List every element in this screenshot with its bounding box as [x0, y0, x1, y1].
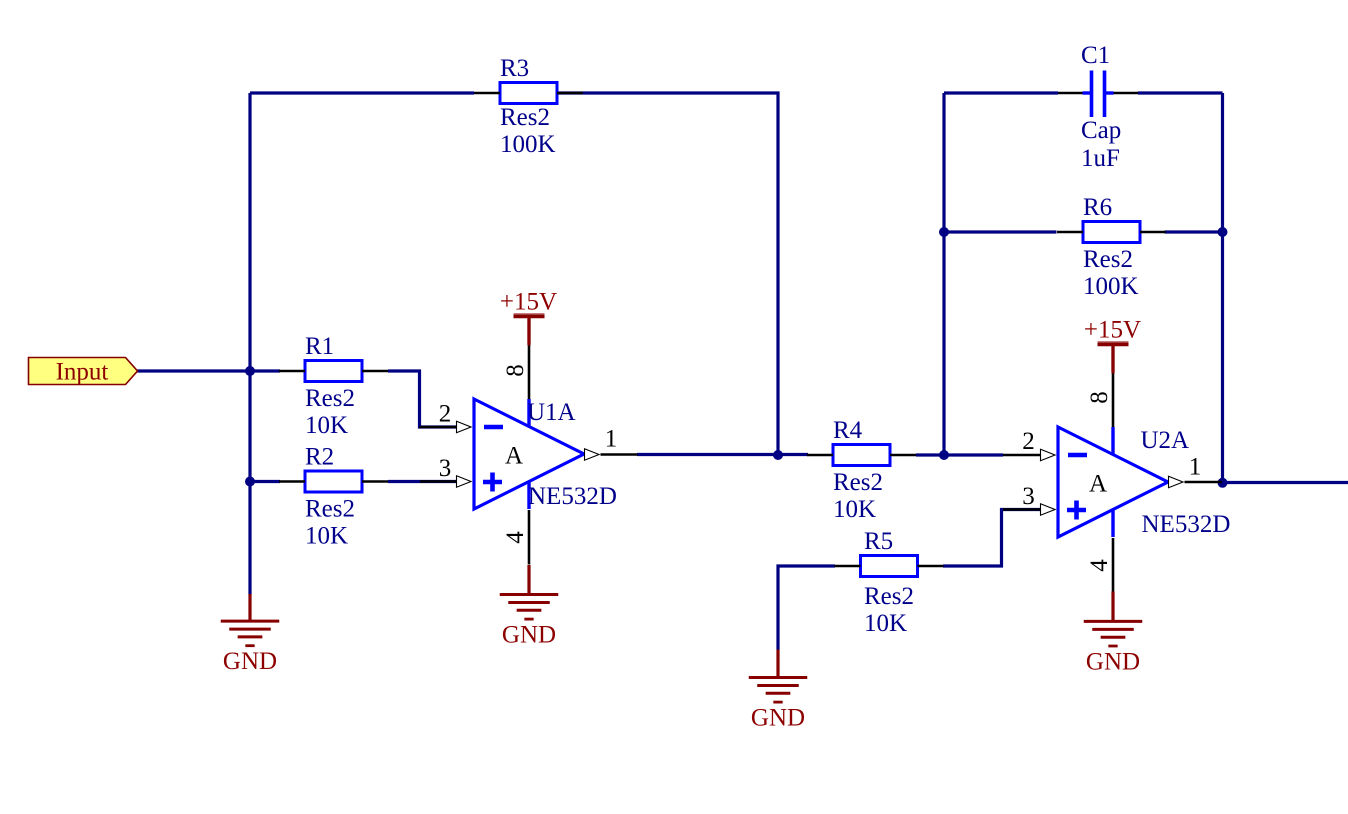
wire R6 left — [944, 230, 1057, 233]
svg-text:2: 2 — [1022, 428, 1035, 455]
svg-text:U1A: U1A — [527, 399, 576, 426]
ground GND R5 — [749, 678, 808, 732]
svg-text:1uF: 1uF — [1081, 145, 1120, 172]
svg-text:Input: Input — [56, 359, 109, 386]
U2A pin 8 — [1112, 373, 1115, 427]
wire R6 right — [1165, 230, 1223, 233]
svg-text:A: A — [505, 443, 523, 470]
ground stem R5 — [776, 650, 779, 679]
port Input — [29, 358, 138, 386]
U2A pin 3 — [1003, 504, 1055, 515]
wire R1 to U1A pin2 — [388, 371, 458, 427]
wire C1 loop right vertical — [1221, 93, 1224, 483]
ground stem left bus — [248, 594, 251, 622]
svg-text:2: 2 — [439, 401, 452, 428]
svg-text:GND: GND — [502, 622, 556, 649]
wire U1A output to R4 — [637, 453, 808, 456]
junction U2A out / feedback — [1218, 478, 1228, 488]
svg-text:100K: 100K — [1083, 273, 1139, 300]
ground GND U1A — [500, 595, 559, 649]
resistor R4 — [807, 417, 916, 523]
svg-text:1: 1 — [605, 426, 618, 453]
wire R4 to U2A pin2 — [916, 453, 1003, 456]
U1A pin 1 output — [585, 449, 638, 460]
U1A pin 8 number — [502, 364, 529, 377]
junction R2 tap — [245, 477, 255, 487]
junction input/R1 — [245, 366, 255, 376]
wire C1 loop top left — [944, 91, 1058, 94]
svg-text:1: 1 — [1189, 454, 1202, 481]
ground stem U1A pin4 — [527, 565, 530, 595]
svg-text:Res2: Res2 — [864, 583, 914, 610]
U2A pin 8 number — [1086, 391, 1113, 404]
U1A pin 4 number — [502, 531, 529, 544]
op-amp U1A NE532D — [474, 399, 617, 510]
svg-text:4: 4 — [502, 531, 529, 544]
svg-text:GND: GND — [1086, 648, 1140, 675]
U2A pin8 power stem — [1111, 346, 1114, 374]
wire left input bus vertical — [248, 93, 251, 595]
wire R2 to U1A pin3 — [388, 480, 458, 483]
wire R1 left — [250, 369, 280, 372]
svg-text:Res2: Res2 — [305, 496, 355, 523]
svg-text:+15V: +15V — [1084, 317, 1141, 344]
svg-text:Res2: Res2 — [305, 385, 355, 412]
wire C1 loop left vertical — [942, 93, 945, 455]
wire top feedback right segment — [558, 93, 779, 455]
resistor R1 — [279, 333, 388, 439]
wire top feedback left segment — [250, 91, 474, 94]
junction U1A out / feedback / R4 — [773, 450, 783, 460]
U2A pin 1 number — [1189, 454, 1202, 481]
resistor R6 — [1057, 194, 1166, 300]
wire C1 loop top right — [1138, 91, 1223, 94]
svg-text:10K: 10K — [864, 610, 907, 637]
ground GND U2A — [1084, 621, 1143, 675]
U2A pin 2 number — [1022, 428, 1035, 455]
ground GND left bus — [221, 621, 280, 675]
resistor R2 — [279, 444, 388, 550]
svg-text:10K: 10K — [305, 523, 348, 550]
wire input port to bus — [137, 369, 250, 372]
svg-text:8: 8 — [502, 364, 529, 377]
svg-text:Cap: Cap — [1081, 117, 1121, 144]
svg-text:R2: R2 — [305, 444, 334, 471]
wire R2 left — [250, 480, 280, 483]
svg-text:C1: C1 — [1081, 42, 1110, 69]
svg-text:+15V: +15V — [500, 289, 557, 316]
svg-text:R6: R6 — [1083, 194, 1112, 221]
svg-text:R4: R4 — [833, 417, 863, 444]
svg-text:4: 4 — [1086, 559, 1113, 572]
svg-text:NE532D: NE532D — [528, 483, 617, 510]
svg-text:10K: 10K — [305, 412, 348, 439]
svg-text:100K: 100K — [500, 131, 556, 158]
U2A pin 2 — [1003, 449, 1055, 460]
U1A pin 3 number — [439, 455, 452, 482]
svg-text:8: 8 — [1086, 391, 1113, 404]
U2A pin 1 output — [1169, 476, 1223, 487]
svg-text:10K: 10K — [833, 496, 876, 523]
junction R6 right — [1218, 227, 1228, 237]
U1A pin 2 number — [439, 401, 452, 428]
capacitor C1 — [1058, 42, 1138, 172]
svg-text:R1: R1 — [305, 333, 334, 360]
wire R5 to U2A pin3 — [943, 510, 1040, 567]
resistor R5 — [835, 528, 944, 637]
svg-text:U2A: U2A — [1141, 427, 1190, 454]
U1A pin 3 — [420, 476, 471, 487]
svg-text:R5: R5 — [864, 528, 893, 555]
wire U2A output — [1223, 481, 1348, 484]
U1A pin 8 — [528, 345, 531, 399]
op-amp U2A NE532D — [1058, 427, 1230, 538]
resistor R3 — [474, 55, 583, 158]
power +15V at U2A — [1084, 317, 1141, 372]
U1A pin 4 — [528, 510, 531, 565]
svg-text:A: A — [1089, 471, 1107, 498]
wire R5 gnd branch — [778, 566, 835, 650]
U1A pin 1 number — [605, 426, 618, 453]
svg-text:Res2: Res2 — [500, 104, 550, 131]
ground stem U2A pin4 — [1111, 592, 1114, 623]
svg-text:GND: GND — [751, 705, 805, 732]
U2A pin 4 — [1112, 538, 1115, 592]
svg-text:GND: GND — [223, 648, 277, 675]
svg-text:Res2: Res2 — [833, 469, 883, 496]
junction R4 / C1 loop — [939, 450, 949, 460]
U2A pin 4 number — [1086, 559, 1113, 572]
svg-text:NE532D: NE532D — [1142, 511, 1231, 538]
U2A pin 3 number — [1022, 483, 1035, 510]
power +15V at U1A — [500, 289, 557, 344]
junction R6 left / C1 loop — [939, 227, 949, 237]
U1A pin8 power stem — [527, 318, 530, 346]
svg-text:3: 3 — [1022, 483, 1035, 510]
svg-text:R3: R3 — [500, 55, 529, 82]
svg-text:Res2: Res2 — [1083, 246, 1133, 273]
svg-text:3: 3 — [439, 455, 452, 482]
U1A pin 2 — [420, 421, 472, 432]
